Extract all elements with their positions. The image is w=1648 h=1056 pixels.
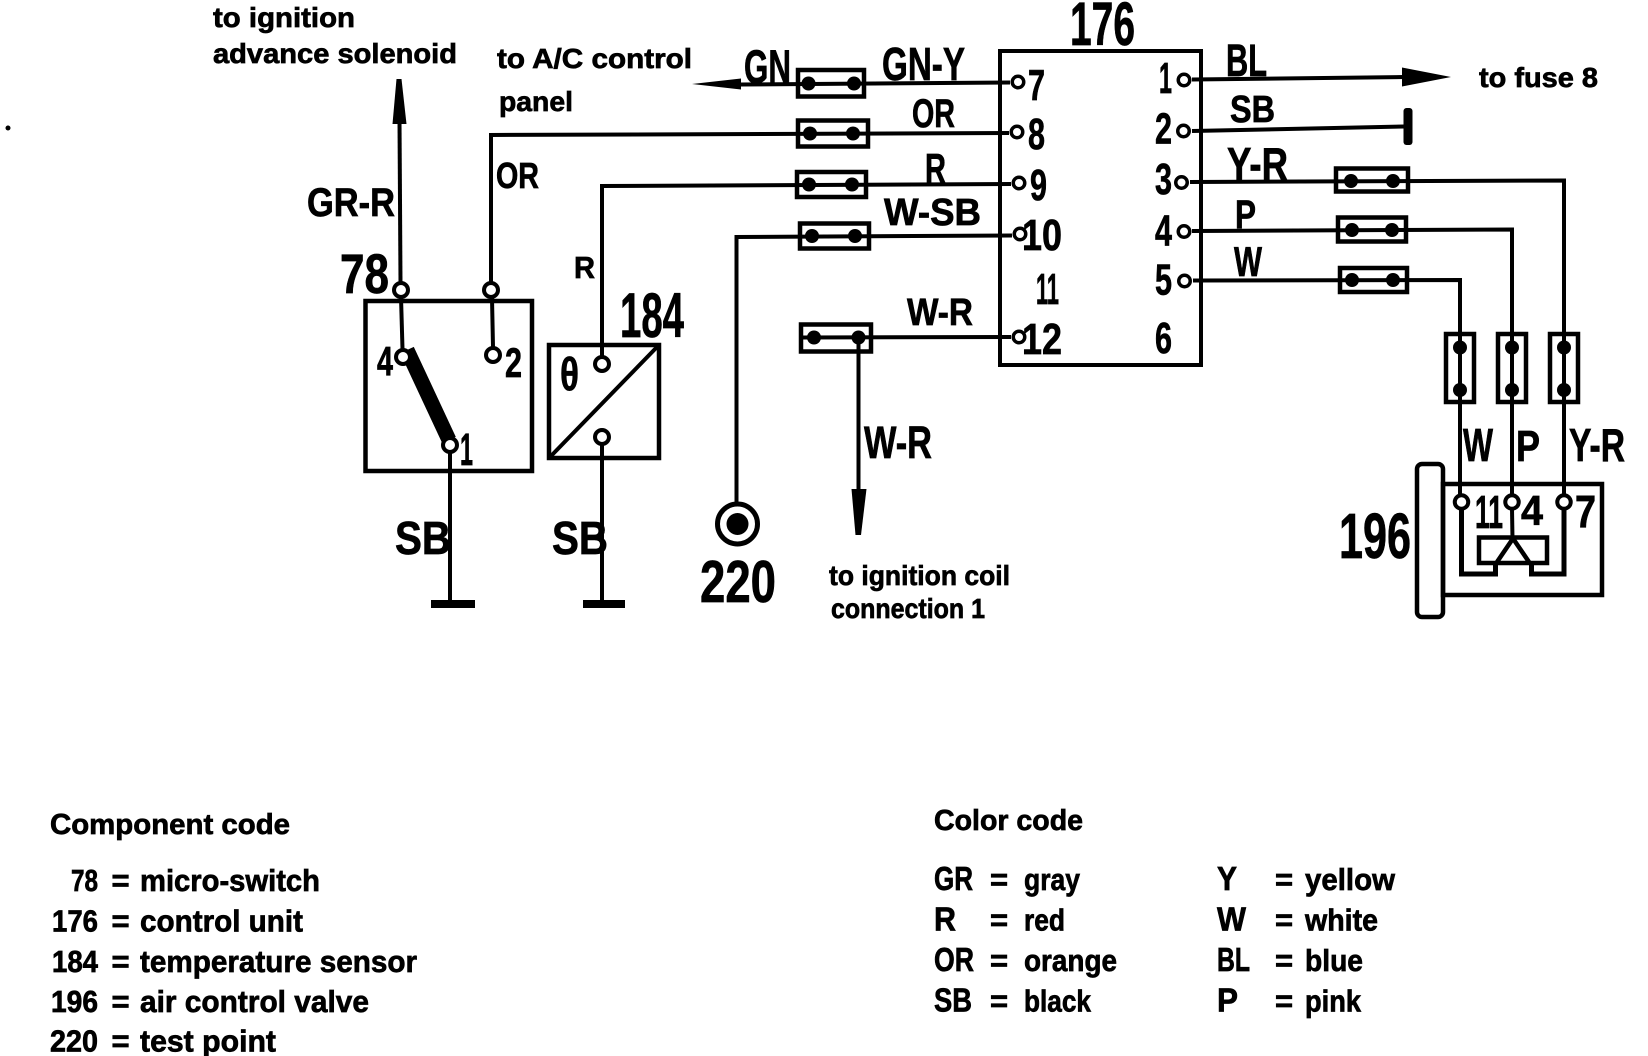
svg-text:W-R: W-R (907, 292, 973, 334)
pin number 7 of 196 (1575, 486, 1596, 537)
connector OR (798, 121, 868, 147)
wire GR-R vertical to arrow (400, 120, 401, 283)
svg-text:1: 1 (1159, 54, 1172, 103)
wire SB from 176 pin2 to terminator (1192, 127, 1404, 132)
connector R (797, 172, 866, 197)
svg-text:78: 78 (340, 242, 389, 305)
color row OR orange (934, 941, 1117, 978)
svg-text:pink: pink (1305, 984, 1362, 1019)
top pin of 184 (595, 357, 609, 371)
svg-text:R: R (934, 901, 956, 938)
pin 2 of 78 (486, 348, 500, 362)
svg-text:=: = (1275, 903, 1293, 938)
label W-R vertical wire (864, 417, 932, 468)
svg-text:3: 3 (1155, 155, 1172, 204)
svg-text:10: 10 (1022, 211, 1062, 260)
svg-text:W: W (1217, 901, 1247, 938)
temperature sensor 184 box (549, 345, 659, 458)
designator 220 (700, 549, 776, 615)
wire W-SB from test point 220 to 176 pin10 (737, 236, 1013, 505)
pin number 12 of 176 (1022, 315, 1062, 364)
label to ignition coil connection 1 (829, 560, 1010, 624)
svg-text:176: 176 (52, 904, 98, 939)
svg-text:=: = (112, 863, 130, 898)
heading Component code (50, 809, 290, 841)
svg-text:SB: SB (395, 512, 451, 564)
connector P right (1338, 218, 1406, 242)
label W-SB (884, 192, 981, 234)
svg-text:11: 11 (1475, 486, 1503, 538)
svg-text:196: 196 (1339, 500, 1411, 572)
svg-text:196: 196 (51, 984, 98, 1019)
designator 196 (1339, 500, 1411, 572)
label P at 196 (1516, 422, 1540, 471)
svg-text:176: 176 (1070, 0, 1135, 58)
svg-text:GR-R: GR-R (307, 181, 395, 225)
pin number 10 of 176 (1022, 211, 1062, 260)
pin 11 of 196 (1455, 495, 1469, 509)
SB wire terminator bar (1404, 108, 1413, 145)
switch blade of 78 (407, 350, 449, 440)
color row GR gray (934, 860, 1081, 897)
svg-text:=: = (112, 944, 130, 979)
svg-text:SB: SB (1230, 89, 1275, 131)
label SB right of 176 (1230, 89, 1275, 131)
color row W white (1217, 901, 1378, 938)
legend row 78 micro-switch (71, 863, 320, 898)
label Y-R at 196 (1569, 419, 1625, 471)
pin number 6 of 176 (1155, 314, 1172, 363)
svg-text:2: 2 (1155, 105, 1172, 154)
designator 176 (1070, 0, 1135, 58)
svg-text:Y-R: Y-R (1227, 138, 1288, 190)
connector Y-R right (1336, 169, 1408, 192)
control unit 176 box (1000, 51, 1201, 365)
svg-text:=: = (112, 904, 130, 939)
color row BL blue (1217, 941, 1363, 978)
connector W vertical (1446, 334, 1474, 402)
designator 78 (340, 242, 389, 305)
pin number 7 of 176 (1028, 61, 1045, 110)
pin 8 of 176 (1011, 126, 1023, 138)
svg-text:OR: OR (934, 941, 974, 978)
label R near 176 (925, 145, 946, 192)
svg-text:4: 4 (1521, 487, 1544, 534)
svg-text:black: black (1024, 984, 1092, 1019)
svg-text:air control valve: air control valve (140, 984, 369, 1019)
svg-text:P: P (1516, 422, 1540, 471)
heading Color code (934, 805, 1083, 837)
arrow up to ignition advance solenoid (393, 79, 407, 124)
svg-text:=: = (990, 903, 1008, 938)
label P right of 176 (1235, 193, 1256, 237)
svg-text:8: 8 (1028, 110, 1045, 159)
svg-text:R: R (925, 145, 946, 192)
pin number 4 of 196 (1521, 487, 1544, 534)
svg-text:=: = (1275, 984, 1293, 1019)
wire pin4 stub inside 78 (401, 297, 403, 349)
svg-text:control unit: control unit (140, 904, 303, 939)
svg-text:=: = (1275, 943, 1293, 978)
pin number 2 of 176 (1155, 105, 1172, 154)
legend row 196 air control valve (51, 984, 369, 1019)
wire R from 184 to 176 pin9 (602, 184, 1011, 357)
svg-text:SB: SB (552, 512, 608, 564)
pin number 1 of 176 (1159, 54, 1172, 103)
pin 4 of 78 (396, 350, 410, 364)
svg-text:P: P (1217, 982, 1238, 1019)
wire W from 176 pin5 to valve 196 pin11 (1193, 280, 1460, 495)
pin 1 of 176 (1178, 74, 1190, 86)
connector Y-R vertical (1550, 334, 1578, 402)
svg-text:test point: test point (140, 1024, 276, 1056)
pin number 4 of 176 (1155, 207, 1172, 256)
svg-text:7: 7 (1028, 61, 1045, 110)
svg-text:BL: BL (1217, 941, 1250, 978)
ground symbol left (431, 600, 475, 608)
label GN-Y (882, 38, 965, 90)
micro-switch 78 box (366, 301, 533, 471)
wire P from 176 pin4 to valve 196 pin4 (1192, 230, 1512, 496)
legend row 176 control unit (52, 904, 303, 939)
legend row 184 temperature sensor (52, 944, 417, 979)
svg-text:OR: OR (496, 155, 539, 196)
svg-text:184: 184 (620, 281, 684, 351)
svg-text:SB: SB (934, 982, 972, 1019)
svg-text:11: 11 (1036, 265, 1059, 314)
color row P pink (1217, 982, 1362, 1019)
pin number 3 of 176 (1155, 155, 1172, 204)
svg-text:6: 6 (1155, 314, 1172, 363)
svg-text:micro-switch: micro-switch (140, 863, 320, 898)
svg-text:connection 1: connection 1 (831, 593, 985, 624)
svg-text:1: 1 (460, 424, 473, 475)
svg-text:=: = (990, 984, 1008, 1019)
theta symbol in 184 (560, 348, 579, 400)
pin 3 of 176 (1176, 177, 1188, 189)
scan speck (6, 126, 11, 131)
svg-text:W-R: W-R (864, 417, 932, 468)
pin number 2 of 78 (505, 339, 522, 386)
ground symbol right (583, 600, 625, 608)
wire W-R down to arrow (857, 338, 861, 492)
valve 196 triangle (1497, 539, 1529, 563)
pin 5 of 176 (1179, 275, 1191, 287)
arrow down to ignition coil (852, 489, 867, 535)
label SB ground right (552, 512, 608, 564)
pin 4 of 176 (1178, 226, 1190, 238)
label GN (744, 40, 791, 93)
label W right of 176 (1234, 238, 1262, 285)
pin number 11 of 196 (1475, 486, 1503, 538)
svg-text:=: = (1275, 862, 1293, 897)
svg-text:5: 5 (1155, 256, 1172, 305)
label SB ground left (395, 512, 451, 564)
svg-text:Color code: Color code (934, 805, 1083, 837)
svg-text:to ignition coil: to ignition coil (829, 560, 1010, 591)
svg-text:θ: θ (560, 348, 579, 400)
svg-text:220: 220 (700, 549, 776, 615)
arrow left to A/C control panel (692, 79, 741, 90)
svg-text:Y-R: Y-R (1569, 419, 1625, 471)
svg-text:Component code: Component code (50, 809, 290, 841)
label W-R horizontal (907, 292, 973, 334)
pin 4 of 196 (1505, 495, 1519, 509)
pin number 5 of 176 (1155, 256, 1172, 305)
svg-text:W: W (1234, 238, 1262, 285)
svg-text:12: 12 (1022, 315, 1062, 364)
connector GN-Y (798, 70, 864, 97)
svg-text:white: white (1304, 903, 1378, 938)
svg-text:Y: Y (1217, 860, 1237, 897)
svg-text:2: 2 (505, 339, 522, 386)
node top of 78 pin2 wire (484, 283, 498, 297)
svg-text:P: P (1235, 193, 1256, 237)
svg-text:78: 78 (71, 863, 98, 898)
svg-text:=: = (112, 984, 130, 1019)
svg-text:W-SB: W-SB (884, 192, 981, 234)
label OR near 176 (912, 92, 955, 136)
test point 220 (718, 504, 758, 544)
air control valve 196 body (1443, 484, 1602, 595)
connector W-R (801, 325, 871, 352)
color row Y yellow (1217, 860, 1396, 897)
wire BL from 176 pin1 to fuse arrow (1192, 77, 1404, 80)
pin 1 of 78 (443, 438, 457, 452)
pin 9 of 176 (1013, 177, 1025, 189)
label OR near 78 (496, 155, 539, 196)
label BL (1226, 35, 1267, 86)
svg-text:orange: orange (1024, 943, 1117, 978)
svg-text:=: = (112, 1024, 130, 1056)
svg-text:9: 9 (1030, 161, 1047, 210)
pin 7 of 176 (1012, 76, 1024, 88)
svg-text:4: 4 (377, 338, 393, 384)
valve 196 pin11 channel wire (1462, 509, 1496, 574)
wire pin2 stub inside 78 (492, 298, 493, 347)
valve 196 inner rectangle (1479, 538, 1547, 564)
svg-text:220: 220 (50, 1024, 98, 1056)
connector W-SB (800, 224, 869, 249)
svg-text:advance solenoid: advance solenoid (213, 38, 457, 69)
svg-text:gray: gray (1024, 862, 1081, 897)
label to fuse 8 (1479, 62, 1598, 93)
svg-text:yellow: yellow (1305, 862, 1396, 897)
arrow right to fuse 8 (1402, 68, 1451, 87)
connector W right (1340, 268, 1407, 292)
wire GN to 176 pin7 (740, 83, 1010, 85)
node top of 78 pin4 wire (394, 283, 408, 297)
pin number 1 of 78 (460, 424, 473, 475)
svg-text:panel: panel (499, 86, 573, 117)
svg-text:OR: OR (912, 92, 955, 136)
svg-text:temperature sensor: temperature sensor (140, 944, 417, 979)
wire W-R from 176 pin12 to connector (801, 335, 1011, 340)
pin number 8 of 176 (1028, 110, 1045, 159)
svg-text:GR: GR (934, 860, 973, 897)
label R near 184 (574, 250, 595, 285)
pin 7 of 196 (1557, 495, 1571, 509)
valve 196 pin7 channel wire (1532, 509, 1565, 574)
svg-text:to fuse 8: to fuse 8 (1479, 62, 1598, 93)
svg-text:red: red (1024, 903, 1065, 938)
svg-text:blue: blue (1305, 943, 1363, 978)
label GR-R (307, 181, 395, 225)
air control valve 196 bracket (1417, 464, 1443, 617)
svg-text:=: = (990, 943, 1008, 978)
label W at 196 (1463, 419, 1493, 471)
designator 184 (620, 281, 684, 351)
bottom pin of 184 (595, 430, 609, 444)
pin number 11 of 176 (1036, 265, 1059, 314)
svg-text:4: 4 (1155, 207, 1172, 256)
svg-text:GN: GN (744, 40, 791, 93)
pin 10 of 176 (1014, 228, 1026, 240)
label Y-R right of 176 (1227, 138, 1288, 190)
svg-text:184: 184 (52, 944, 99, 979)
label to ignition advance solenoid (213, 2, 457, 69)
svg-text:W: W (1463, 419, 1493, 471)
connector P vertical (1498, 334, 1526, 402)
wire Y-R from 176 pin3 to valve 196 pin7 (1190, 181, 1564, 496)
svg-text:GN-Y: GN-Y (882, 38, 965, 90)
svg-text:=: = (990, 862, 1008, 897)
pin number 4 of 78 (377, 338, 393, 384)
wire 184 bottom pin to ground (600, 444, 604, 601)
color row R red (934, 901, 1065, 938)
svg-text:to A/C control: to A/C control (497, 43, 692, 74)
pin 2 of 176 (1178, 125, 1190, 137)
legend row 220 test point (50, 1024, 276, 1056)
svg-text:to ignition: to ignition (213, 2, 355, 33)
svg-text:7: 7 (1575, 486, 1596, 537)
svg-text:BL: BL (1226, 35, 1267, 86)
valve 196 pin4 wire to triangle apex (1510, 509, 1515, 539)
wire pin1 of 78 to ground (448, 452, 452, 601)
label to A/C control panel (497, 43, 692, 117)
svg-text:R: R (574, 250, 595, 285)
pin number 9 of 176 (1030, 161, 1047, 210)
color row SB black (934, 982, 1092, 1019)
pin 12 of 176 (1013, 331, 1025, 343)
wire OR from 78 pin2 to 176 pin8 (491, 133, 1009, 284)
